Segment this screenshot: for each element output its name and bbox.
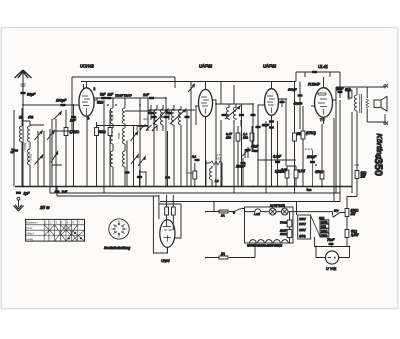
svg-text:1A: 1A xyxy=(221,214,225,218)
vertical rails right xyxy=(334,87,352,202)
svg-text:Sockelschaltung: Sockelschaltung xyxy=(104,246,130,250)
capacitor if2c xyxy=(250,104,255,152)
svg-text:U Y41: U Y41 xyxy=(326,267,336,271)
svg-text:1,8MΩ: 1,8MΩ xyxy=(70,130,80,134)
svg-text:700Ω: 700Ω xyxy=(280,221,288,225)
wire lamp links xyxy=(246,211,333,213)
mains line with fuse xyxy=(206,209,247,213)
capacitor det2 xyxy=(245,147,250,158)
resistor 0.17M left of UL41 xyxy=(301,106,316,187)
fuse xyxy=(219,210,228,218)
resistor 0.1M xyxy=(294,166,305,187)
svg-text:2: 2 xyxy=(94,87,96,91)
svg-text:MΩ: MΩ xyxy=(243,136,249,140)
svg-text:70nF: 70nF xyxy=(327,238,335,242)
coil Ls xyxy=(209,166,218,187)
main bus second xyxy=(50,192,340,194)
wire det row xyxy=(258,159,296,161)
fuse bottom 2A xyxy=(219,252,228,259)
capacitor 0.1uF coupling xyxy=(273,121,282,187)
coil MW xyxy=(22,115,33,149)
svg-text:(0): (0) xyxy=(19,115,23,119)
wire mid horizontals xyxy=(52,111,222,187)
svg-text:Kurz: Kurz xyxy=(27,226,33,230)
resistor 50k xyxy=(293,82,305,194)
svg-text:0,28: 0,28 xyxy=(281,168,287,172)
svg-text:2W: 2W xyxy=(350,212,357,216)
lamp 2 xyxy=(281,208,288,215)
svg-text:100μF: 100μF xyxy=(307,155,317,159)
svg-text:7000: 7000 xyxy=(117,132,121,139)
svg-text:100: 100 xyxy=(354,163,359,167)
capacitor if1a xyxy=(151,110,156,187)
capacitor 1nF grid xyxy=(70,116,77,123)
capacitor 300pF top xyxy=(312,71,317,74)
svg-text:M y: M y xyxy=(334,209,339,213)
oscillator coil bank A xyxy=(110,98,113,187)
svg-text:5kΩ: 5kΩ xyxy=(345,88,351,92)
rectifier UY41 xyxy=(316,247,350,272)
wire osc vertical xyxy=(52,119,62,193)
voltage selector xyxy=(298,215,329,239)
svg-text:2W: 2W xyxy=(360,175,367,179)
capacitor blob b xyxy=(165,131,170,187)
band table xyxy=(26,219,85,241)
svg-text:FLTRAF: FLTRAF xyxy=(308,83,321,87)
svg-text:Mittel: Mittel xyxy=(27,231,34,235)
capacitor 100nF xyxy=(236,158,246,187)
wire ul41 top rail xyxy=(296,72,340,87)
switch mains xyxy=(233,208,242,214)
band filter transformer xyxy=(153,105,168,131)
magic eye UM4 xyxy=(160,219,175,263)
wire speaker top xyxy=(349,87,385,89)
svg-text:UL41: UL41 xyxy=(318,64,328,69)
svg-text:Batterie •: Batterie • xyxy=(27,221,39,225)
svg-text:MΩ: MΩ xyxy=(216,157,221,161)
svg-text:UAF42UCH42UL41UAF42UM4: UAF42UCH42UL41UAF42UM4 xyxy=(247,245,283,248)
antenna xyxy=(15,70,32,107)
capacitor 0.1uF det xyxy=(255,120,260,140)
wire speaker bottom xyxy=(367,121,385,123)
svg-text:100nF: 100nF xyxy=(236,165,246,169)
wire antenna down lead xyxy=(22,105,24,187)
svg-text:(7000): (7000) xyxy=(23,143,27,152)
wire grid leak xyxy=(73,105,75,187)
tube UAF42 no2 xyxy=(261,64,282,122)
tube UL41 xyxy=(311,64,336,124)
svg-text:2,5W: 2,5W xyxy=(350,233,359,237)
wire mains bottom xyxy=(206,243,256,258)
svg-text:1nF: 1nF xyxy=(143,93,150,97)
main bus third xyxy=(160,201,340,203)
capacitor 80pF antenna series xyxy=(20,92,36,97)
resistor 1k 2W xyxy=(355,120,367,179)
svg-text:125V: 125V xyxy=(299,228,306,232)
capacitor blob a xyxy=(124,141,129,187)
svg-text:0,1M: 0,1M xyxy=(298,169,305,173)
capacitor 1nF bottom xyxy=(54,187,158,197)
coil LW xyxy=(19,108,23,187)
oscillator coil bank B xyxy=(122,98,125,187)
capacitor 100pF det column xyxy=(288,82,303,130)
capacitor blob c xyxy=(137,170,146,187)
capacitor if1b xyxy=(163,98,168,187)
capacitor if2b xyxy=(239,104,244,187)
trimmer T2 xyxy=(35,155,43,165)
resistor mid3 xyxy=(95,122,99,187)
resistor 160ohm xyxy=(345,209,359,230)
capacitor 1nF2 xyxy=(106,93,114,100)
wire antenna to mixer grid xyxy=(23,96,79,105)
svg-text:100pF: 100pF xyxy=(56,99,67,103)
capacitor 30nF plate xyxy=(336,87,349,118)
capacitor 1nF coupling xyxy=(140,93,166,99)
tube socket diagram xyxy=(104,219,130,250)
capacitor grid1 xyxy=(192,155,200,162)
svg-text:UAF42: UAF42 xyxy=(199,64,213,69)
wire if2 bottom links xyxy=(206,104,222,187)
label coil values xyxy=(23,114,121,162)
band switch contacts xyxy=(137,125,158,132)
svg-text:47pF: 47pF xyxy=(294,102,301,106)
trimmer osc top xyxy=(54,112,62,120)
wire oscillator box top xyxy=(72,77,175,131)
vertical rails mid right xyxy=(216,120,266,193)
wire det links xyxy=(258,99,296,166)
resistor 0.47M xyxy=(226,126,240,187)
svg-text:32Ω: 32Ω xyxy=(143,117,149,121)
trimmer osc low xyxy=(51,152,58,163)
wire left grid lines xyxy=(14,110,50,193)
svg-text:7 5: 7 5 xyxy=(320,118,325,122)
svg-text:2A: 2A xyxy=(220,252,225,256)
node speaker terminal top xyxy=(384,84,388,88)
capacitor if1c xyxy=(184,110,189,187)
svg-text:0,1: 0,1 xyxy=(192,155,197,159)
output transformer xyxy=(354,87,368,122)
resistor 0.28M xyxy=(281,166,289,187)
wire mixer output xyxy=(94,98,148,100)
trimmer T1 xyxy=(35,131,43,141)
left vertical rails mid section xyxy=(104,98,196,193)
wire HT bus top xyxy=(81,81,296,83)
IF transformer 2 xyxy=(225,104,240,120)
coil LW2 xyxy=(27,149,30,187)
ballast resistor 100 xyxy=(279,229,292,238)
capacitor bf a xyxy=(148,105,153,120)
wire right step xyxy=(347,179,357,210)
trimmer bank lower xyxy=(131,155,145,167)
trimmer oscillator xyxy=(188,82,195,99)
capacitor left edge 3.5 xyxy=(10,148,18,154)
resistor 1.5M xyxy=(64,110,79,187)
svg-text:200Ω: 200Ω xyxy=(321,229,327,233)
transformer box xyxy=(245,207,294,248)
svg-text:200V: 200V xyxy=(299,222,306,226)
wire if2 top xyxy=(213,82,254,105)
resistor 5k plate xyxy=(345,88,352,98)
svg-text:TRAF TRAF: TRAF TRAF xyxy=(115,94,132,98)
svg-text:96Ω: 96Ω xyxy=(321,225,326,229)
node speaker terminal bottom xyxy=(384,114,388,125)
svg-text:100pF: 100pF xyxy=(288,88,297,92)
svg-text:350: 350 xyxy=(372,158,384,176)
brand text Koerting 350 xyxy=(372,134,384,177)
wire if1 top xyxy=(148,109,195,111)
svg-text:1μF: 1μF xyxy=(24,192,31,196)
svg-text:UM4: UM4 xyxy=(161,258,170,263)
svg-text:150: 150 xyxy=(111,114,115,119)
svg-text:(50): (50) xyxy=(28,115,33,119)
wire um4 frame xyxy=(153,195,181,253)
choke La xyxy=(254,209,261,216)
capacitor 5nF xyxy=(100,93,107,100)
svg-text:100Ω: 100Ω xyxy=(280,232,288,236)
svg-text:32Ω: 32Ω xyxy=(97,101,104,105)
capacitor det blob xyxy=(279,99,284,107)
trimmer T3 xyxy=(47,129,54,141)
lamp 1 xyxy=(269,208,276,215)
capacitor if2a xyxy=(221,114,226,117)
svg-text:0,1μF: 0,1μF xyxy=(305,147,313,151)
IF transformer 1 xyxy=(170,105,186,187)
tube UAF42 no1 xyxy=(195,64,216,123)
resistor detector zigzag xyxy=(206,161,222,165)
resistor grid1 xyxy=(193,163,197,187)
capacitor 100uF electrolytic xyxy=(307,150,317,187)
trimmer bank upper xyxy=(131,126,138,187)
wire ifgrid xyxy=(139,98,141,187)
wire rectifier top xyxy=(315,239,350,247)
svg-text:160Ω: 160Ω xyxy=(321,220,327,224)
svg-text:(7000): (7000) xyxy=(28,154,32,163)
svg-text:(17kΩ): (17kΩ) xyxy=(306,131,316,135)
tube UCH42 xyxy=(76,64,97,187)
svg-text:300Ω: 300Ω xyxy=(321,233,327,237)
svg-text:25kΩ: 25kΩ xyxy=(185,171,194,175)
ballast resistor 700 xyxy=(280,220,292,227)
svg-text:UCH42: UCH42 xyxy=(80,64,94,69)
node antenna junction xyxy=(22,104,24,106)
capacitor 1uF left bottom xyxy=(16,192,30,196)
svg-text:80pF: 80pF xyxy=(27,93,36,97)
svg-text:(110): (110) xyxy=(299,234,305,238)
capacitor 70nF xyxy=(327,238,335,245)
svg-text:220V: 220V xyxy=(299,217,306,221)
svg-text:Körting: Körting xyxy=(375,134,384,160)
resistor 1.1M xyxy=(243,126,254,152)
svg-text:UAF42: UAF42 xyxy=(263,64,277,69)
svg-text:Lang: Lang xyxy=(27,237,34,241)
svg-text:25 ω: 25 ω xyxy=(39,205,50,210)
label sprinkles xyxy=(143,117,359,175)
switch My xyxy=(333,209,346,218)
capacitor 22uF cathode xyxy=(261,120,274,186)
ground symbol left xyxy=(14,197,24,211)
loudspeaker xyxy=(349,87,387,122)
capacitor 100pF xyxy=(56,99,67,107)
resistor 50ohm xyxy=(345,230,359,247)
svg-text:LaM: LaM xyxy=(254,212,260,216)
resistor um4 a xyxy=(165,204,169,219)
capacitor 47nF xyxy=(251,145,259,153)
capacitor bf b xyxy=(166,110,171,120)
resistor 68k xyxy=(98,110,112,187)
resistor um4 b xyxy=(171,204,175,219)
main bus ground xyxy=(15,186,352,188)
svg-text:MΩ: MΩ xyxy=(226,136,232,140)
capacitor electrolytic on bus xyxy=(306,188,312,192)
resistor 470 cathode xyxy=(315,124,324,187)
svg-text:9: 9 xyxy=(88,117,90,121)
wires bottom net xyxy=(214,202,315,244)
svg-text:68kΩ: 68kΩ xyxy=(98,130,106,134)
trimmer detector xyxy=(243,149,249,158)
